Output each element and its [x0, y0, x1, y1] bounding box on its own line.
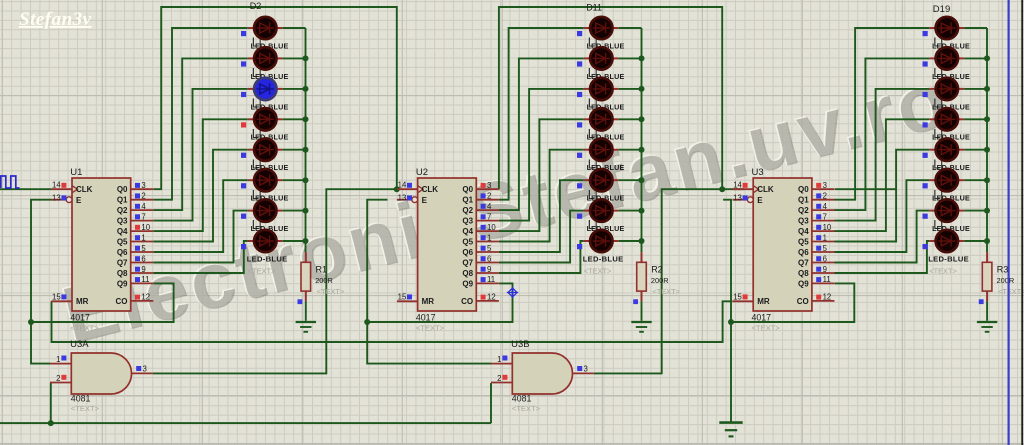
svg-text:LED-BLUE: LED-BLUE: [247, 254, 288, 263]
svg-text:CO: CO: [797, 297, 809, 306]
svg-text:12: 12: [823, 293, 832, 302]
svg-text:14: 14: [52, 180, 61, 189]
svg-text:2: 2: [487, 192, 491, 201]
svg-text:Q0: Q0: [117, 185, 128, 194]
svg-text:3: 3: [823, 181, 827, 190]
svg-text:5: 5: [141, 244, 146, 253]
svg-text:MR: MR: [757, 297, 770, 306]
svg-text:Q9: Q9: [462, 279, 473, 288]
svg-text:Q1: Q1: [798, 196, 809, 205]
svg-text:U3: U3: [752, 167, 764, 178]
svg-text:R2: R2: [651, 264, 663, 274]
svg-text:4: 4: [141, 202, 146, 211]
svg-text:LED-BLUE: LED-BLUE: [928, 254, 969, 263]
svg-text:4017: 4017: [752, 313, 772, 323]
svg-text:CLK: CLK: [76, 185, 93, 194]
svg-text:9: 9: [487, 265, 491, 274]
svg-text:U3B: U3B: [511, 339, 529, 350]
svg-text:4: 4: [487, 202, 492, 211]
svg-text:<TEXT>: <TEXT>: [71, 404, 100, 413]
svg-text:5: 5: [823, 244, 828, 253]
svg-text:13: 13: [398, 193, 407, 202]
svg-text:Q9: Q9: [798, 279, 809, 288]
svg-text:Q4: Q4: [462, 227, 473, 236]
svg-text:Q1: Q1: [462, 196, 473, 205]
svg-text:Q2: Q2: [462, 206, 473, 215]
svg-text:CLK: CLK: [757, 185, 774, 194]
svg-text:Q6: Q6: [117, 248, 128, 257]
svg-text:CO: CO: [116, 297, 128, 306]
svg-text:CO: CO: [461, 297, 473, 306]
svg-text:200R: 200R: [997, 276, 1015, 285]
svg-text:D11: D11: [586, 3, 602, 13]
svg-text:13: 13: [52, 193, 61, 202]
svg-text:Q2: Q2: [798, 206, 809, 215]
svg-text:4081: 4081: [71, 394, 91, 404]
svg-text:D19: D19: [933, 4, 950, 15]
svg-text:<TEXT>: <TEXT>: [752, 324, 781, 333]
svg-text:MR: MR: [76, 297, 89, 306]
svg-text:10: 10: [823, 223, 832, 232]
svg-text:<TEXT>: <TEXT>: [584, 267, 612, 276]
svg-text:Q6: Q6: [798, 248, 809, 257]
svg-text:Q7: Q7: [117, 259, 128, 268]
svg-text:U2: U2: [416, 167, 428, 178]
svg-text:1: 1: [487, 233, 491, 242]
svg-text:200R: 200R: [315, 276, 333, 285]
svg-text:CLK: CLK: [422, 185, 439, 194]
svg-text:Q0: Q0: [462, 185, 473, 194]
svg-text:11: 11: [823, 275, 831, 284]
svg-text:Q3: Q3: [462, 217, 473, 226]
svg-text:3: 3: [141, 181, 145, 190]
svg-text:10: 10: [487, 223, 496, 232]
svg-text:Q4: Q4: [117, 227, 128, 236]
svg-text:6: 6: [487, 254, 491, 263]
svg-text:Q8: Q8: [117, 269, 128, 278]
svg-text:<TEXT>: <TEXT>: [929, 267, 957, 276]
svg-text:4: 4: [823, 202, 828, 211]
svg-text:E: E: [757, 196, 763, 205]
svg-text:9: 9: [823, 265, 827, 274]
svg-text:15: 15: [52, 293, 61, 302]
svg-text:6: 6: [141, 254, 145, 263]
svg-text:7: 7: [141, 212, 145, 221]
svg-text:14: 14: [733, 180, 742, 189]
svg-text:Q5: Q5: [462, 238, 473, 247]
svg-text:14: 14: [398, 180, 407, 189]
svg-text:5: 5: [487, 244, 492, 253]
svg-text:D2: D2: [250, 1, 262, 11]
svg-text:Q6: Q6: [462, 248, 473, 257]
svg-text:Q5: Q5: [117, 238, 128, 247]
svg-text:15: 15: [733, 293, 742, 302]
svg-text:Q7: Q7: [798, 259, 809, 268]
svg-text:<TEXT>: <TEXT>: [998, 287, 1024, 296]
svg-text:2: 2: [141, 192, 145, 201]
svg-text:<TEXT>: <TEXT>: [70, 324, 99, 333]
svg-text:4081: 4081: [512, 394, 532, 404]
svg-text:3: 3: [487, 181, 491, 190]
svg-text:Q8: Q8: [462, 269, 473, 278]
svg-text:E: E: [76, 196, 82, 205]
svg-text:Q3: Q3: [798, 217, 809, 226]
svg-text:<TEXT>: <TEXT>: [512, 404, 541, 413]
svg-text:MR: MR: [422, 297, 435, 306]
svg-text:<TEXT>: <TEXT>: [248, 267, 276, 276]
svg-text:Q7: Q7: [462, 259, 473, 268]
svg-text:2: 2: [823, 192, 827, 201]
svg-text:11: 11: [487, 275, 495, 284]
svg-text:<TEXT>: <TEXT>: [416, 324, 445, 333]
svg-text:Q0: Q0: [798, 185, 809, 194]
svg-text:1: 1: [141, 233, 145, 242]
svg-text:U3A: U3A: [70, 339, 89, 350]
svg-text:LED-BLUE: LED-BLUE: [583, 254, 624, 263]
svg-text:12: 12: [487, 293, 496, 302]
svg-text:12: 12: [141, 293, 150, 302]
svg-text:4017: 4017: [416, 313, 436, 323]
svg-text:3: 3: [143, 365, 147, 374]
svg-text:Q5: Q5: [798, 238, 809, 247]
svg-text:200R: 200R: [651, 276, 669, 285]
svg-text:<TEXT>: <TEXT>: [652, 287, 680, 296]
svg-text:15: 15: [398, 293, 407, 302]
svg-text:7: 7: [823, 212, 827, 221]
svg-text:7: 7: [487, 212, 491, 221]
svg-text:6: 6: [823, 254, 827, 263]
svg-text:E: E: [422, 196, 428, 205]
svg-text:3: 3: [584, 365, 588, 374]
svg-text:Q4: Q4: [798, 227, 809, 236]
svg-text:Q9: Q9: [117, 279, 128, 288]
svg-text:Stefan3v: Stefan3v: [19, 9, 92, 30]
svg-text:13: 13: [733, 193, 742, 202]
svg-text:Q3: Q3: [117, 217, 128, 226]
svg-text:R3: R3: [997, 264, 1009, 274]
svg-text:<TEXT>: <TEXT>: [317, 287, 345, 296]
svg-text:10: 10: [141, 223, 150, 232]
svg-text:U1: U1: [70, 167, 82, 178]
svg-text:11: 11: [141, 275, 149, 284]
svg-text:1: 1: [497, 355, 501, 364]
svg-text:Q1: Q1: [117, 196, 128, 205]
svg-text:R1: R1: [316, 264, 328, 274]
svg-text:4017: 4017: [70, 313, 90, 323]
svg-text:2: 2: [56, 374, 60, 383]
svg-text:Q2: Q2: [117, 206, 128, 215]
svg-text:1: 1: [56, 355, 60, 364]
svg-text:Q8: Q8: [798, 269, 809, 278]
svg-text:9: 9: [141, 265, 145, 274]
svg-text:2: 2: [497, 374, 501, 383]
svg-text:1: 1: [823, 233, 827, 242]
